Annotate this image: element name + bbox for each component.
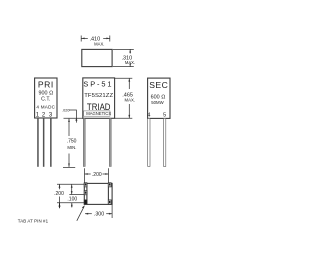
svg-text:C.T.: C.T. (41, 97, 50, 103)
svg-text:MIN.: MIN. (67, 145, 76, 150)
pad pin 2 mid-left (84, 191, 87, 195)
dimension .465 MAX (115, 78, 133, 118)
svg-text:SEC: SEC (149, 80, 168, 90)
dimension .310 MAX (113, 49, 134, 66)
top view outline (82, 49, 112, 66)
dimension .100 left of bottom view (71, 184, 73, 194)
bottom view outline (84, 183, 112, 204)
svg-text:.200: .200 (54, 191, 64, 197)
svg-text:.750: .750 (67, 138, 77, 144)
lead pin 3 (50, 118, 52, 167)
svg-text:.200: .200 (92, 172, 102, 178)
svg-text:.020: .020 (62, 108, 69, 112)
dimension .200 left of bottom view (59, 184, 61, 202)
lead pin 5 (164, 118, 166, 166)
svg-text:TAB AT PIN #1: TAB AT PIN #1 (18, 218, 49, 223)
svg-text:4: 4 (147, 112, 150, 118)
svg-text:.100: .100 (67, 196, 77, 202)
primary side box (35, 78, 57, 118)
svg-text:MAX.: MAX. (125, 60, 135, 65)
secondary side box (148, 78, 170, 118)
svg-text:5: 5 (163, 112, 166, 118)
front view box U1 (83, 78, 115, 118)
svg-text:MAGNETICS: MAGNETICS (86, 111, 111, 116)
front lead left (83, 118, 85, 166)
dimension .410 MAX (81, 36, 110, 42)
MAGNETICS label (84, 111, 110, 116)
svg-text:50MW: 50MW (151, 100, 164, 105)
pad pin 5 bottom-right (108, 200, 111, 204)
lead pin 2 (43, 118, 45, 167)
svg-text:.300: .300 (94, 212, 104, 218)
svg-text:TF5S21ZZ: TF5S21ZZ (84, 93, 113, 99)
svg-text:4 MADC: 4 MADC (36, 104, 55, 109)
svg-text:SP-51: SP-51 (83, 79, 113, 88)
bottom view row extension lines (57, 184, 84, 203)
svg-text:MAX.: MAX. (94, 41, 104, 46)
dimension .300 bottom of bottom view (85, 205, 112, 218)
pad pin 3 top-left (84, 183, 87, 187)
dimension .200 top of bottom view (85, 168, 109, 183)
dimension .750 MIN (63, 118, 83, 167)
lead pin 1 (37, 118, 39, 167)
pad pin 1 bottom-left tab (84, 200, 87, 204)
svg-text:PRI: PRI (38, 79, 54, 89)
svg-text:MAX.: MAX. (125, 98, 136, 103)
front lead right (109, 118, 111, 166)
lead pin 4 (148, 118, 150, 166)
pad pin 4 top-right (108, 183, 111, 187)
leader arrow to pin 1 tab (77, 206, 84, 221)
